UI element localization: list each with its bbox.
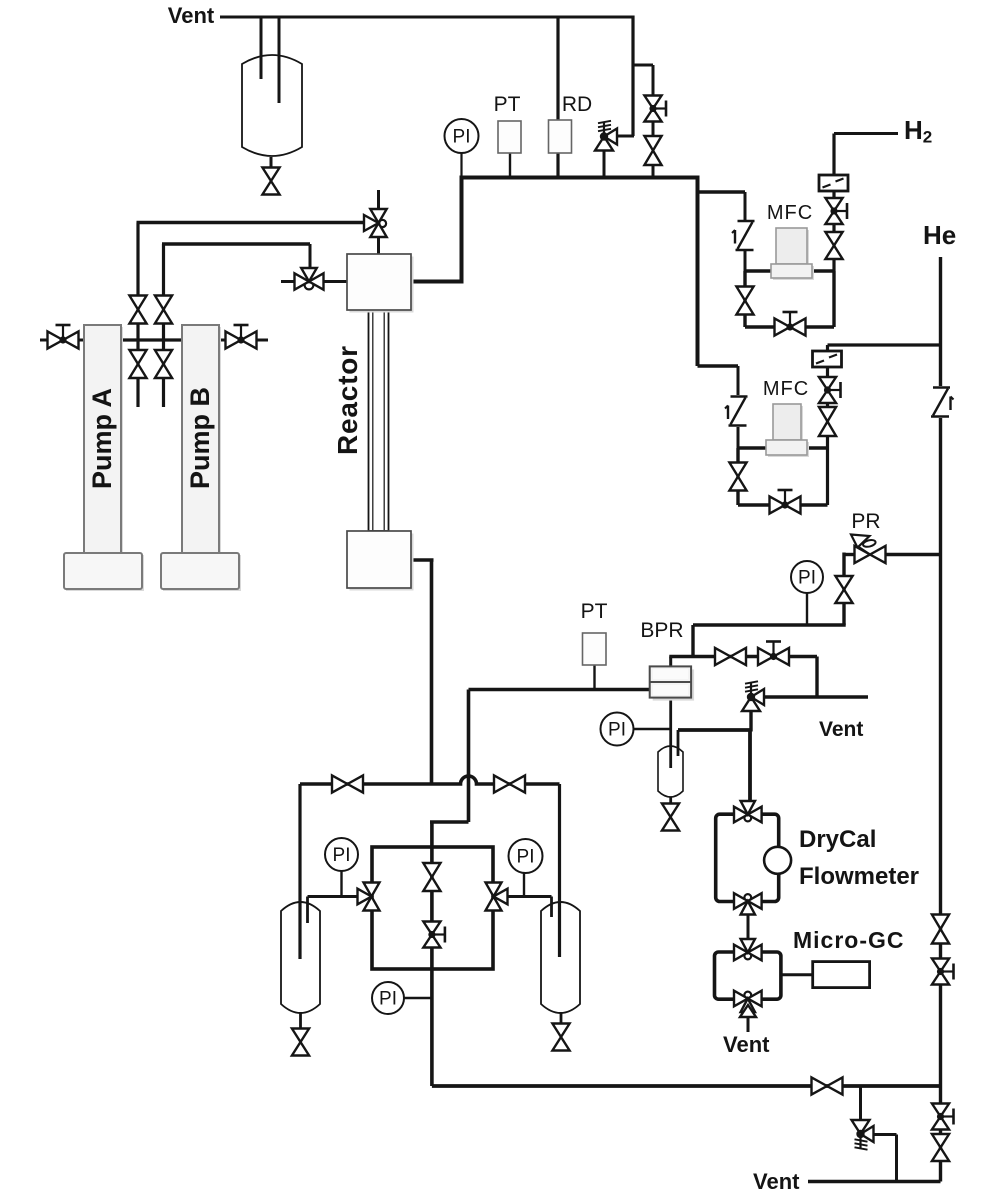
svg-text:DryCal: DryCal [799,826,876,853]
svg-text:Vent: Vent [168,3,215,28]
svg-text:PI: PI [333,845,351,866]
svg-text:PI: PI [608,720,626,741]
svg-text:Micro-GC: Micro-GC [793,927,905,953]
svg-text:Vent: Vent [819,718,863,741]
svg-text:Reactor: Reactor [332,345,363,455]
svg-text:PI: PI [379,989,397,1010]
svg-text:PT: PT [494,93,521,116]
svg-text:MFC: MFC [767,202,813,224]
svg-text:PI: PI [798,568,816,589]
svg-text:MFC: MFC [763,378,809,400]
svg-text:Flowmeter: Flowmeter [799,863,919,890]
svg-text:Vent: Vent [723,1032,770,1057]
svg-text:Pump A: Pump A [87,388,117,489]
svg-text:RD: RD [562,93,592,116]
svg-text:Vent: Vent [753,1169,800,1194]
svg-text:PT: PT [581,600,608,623]
svg-text:PI: PI [517,847,535,868]
svg-text:BPR: BPR [640,619,683,642]
svg-text:He: He [923,220,956,250]
svg-text:Pump B: Pump B [185,387,215,489]
svg-text:PI: PI [453,127,471,148]
svg-text:PR: PR [851,510,880,533]
